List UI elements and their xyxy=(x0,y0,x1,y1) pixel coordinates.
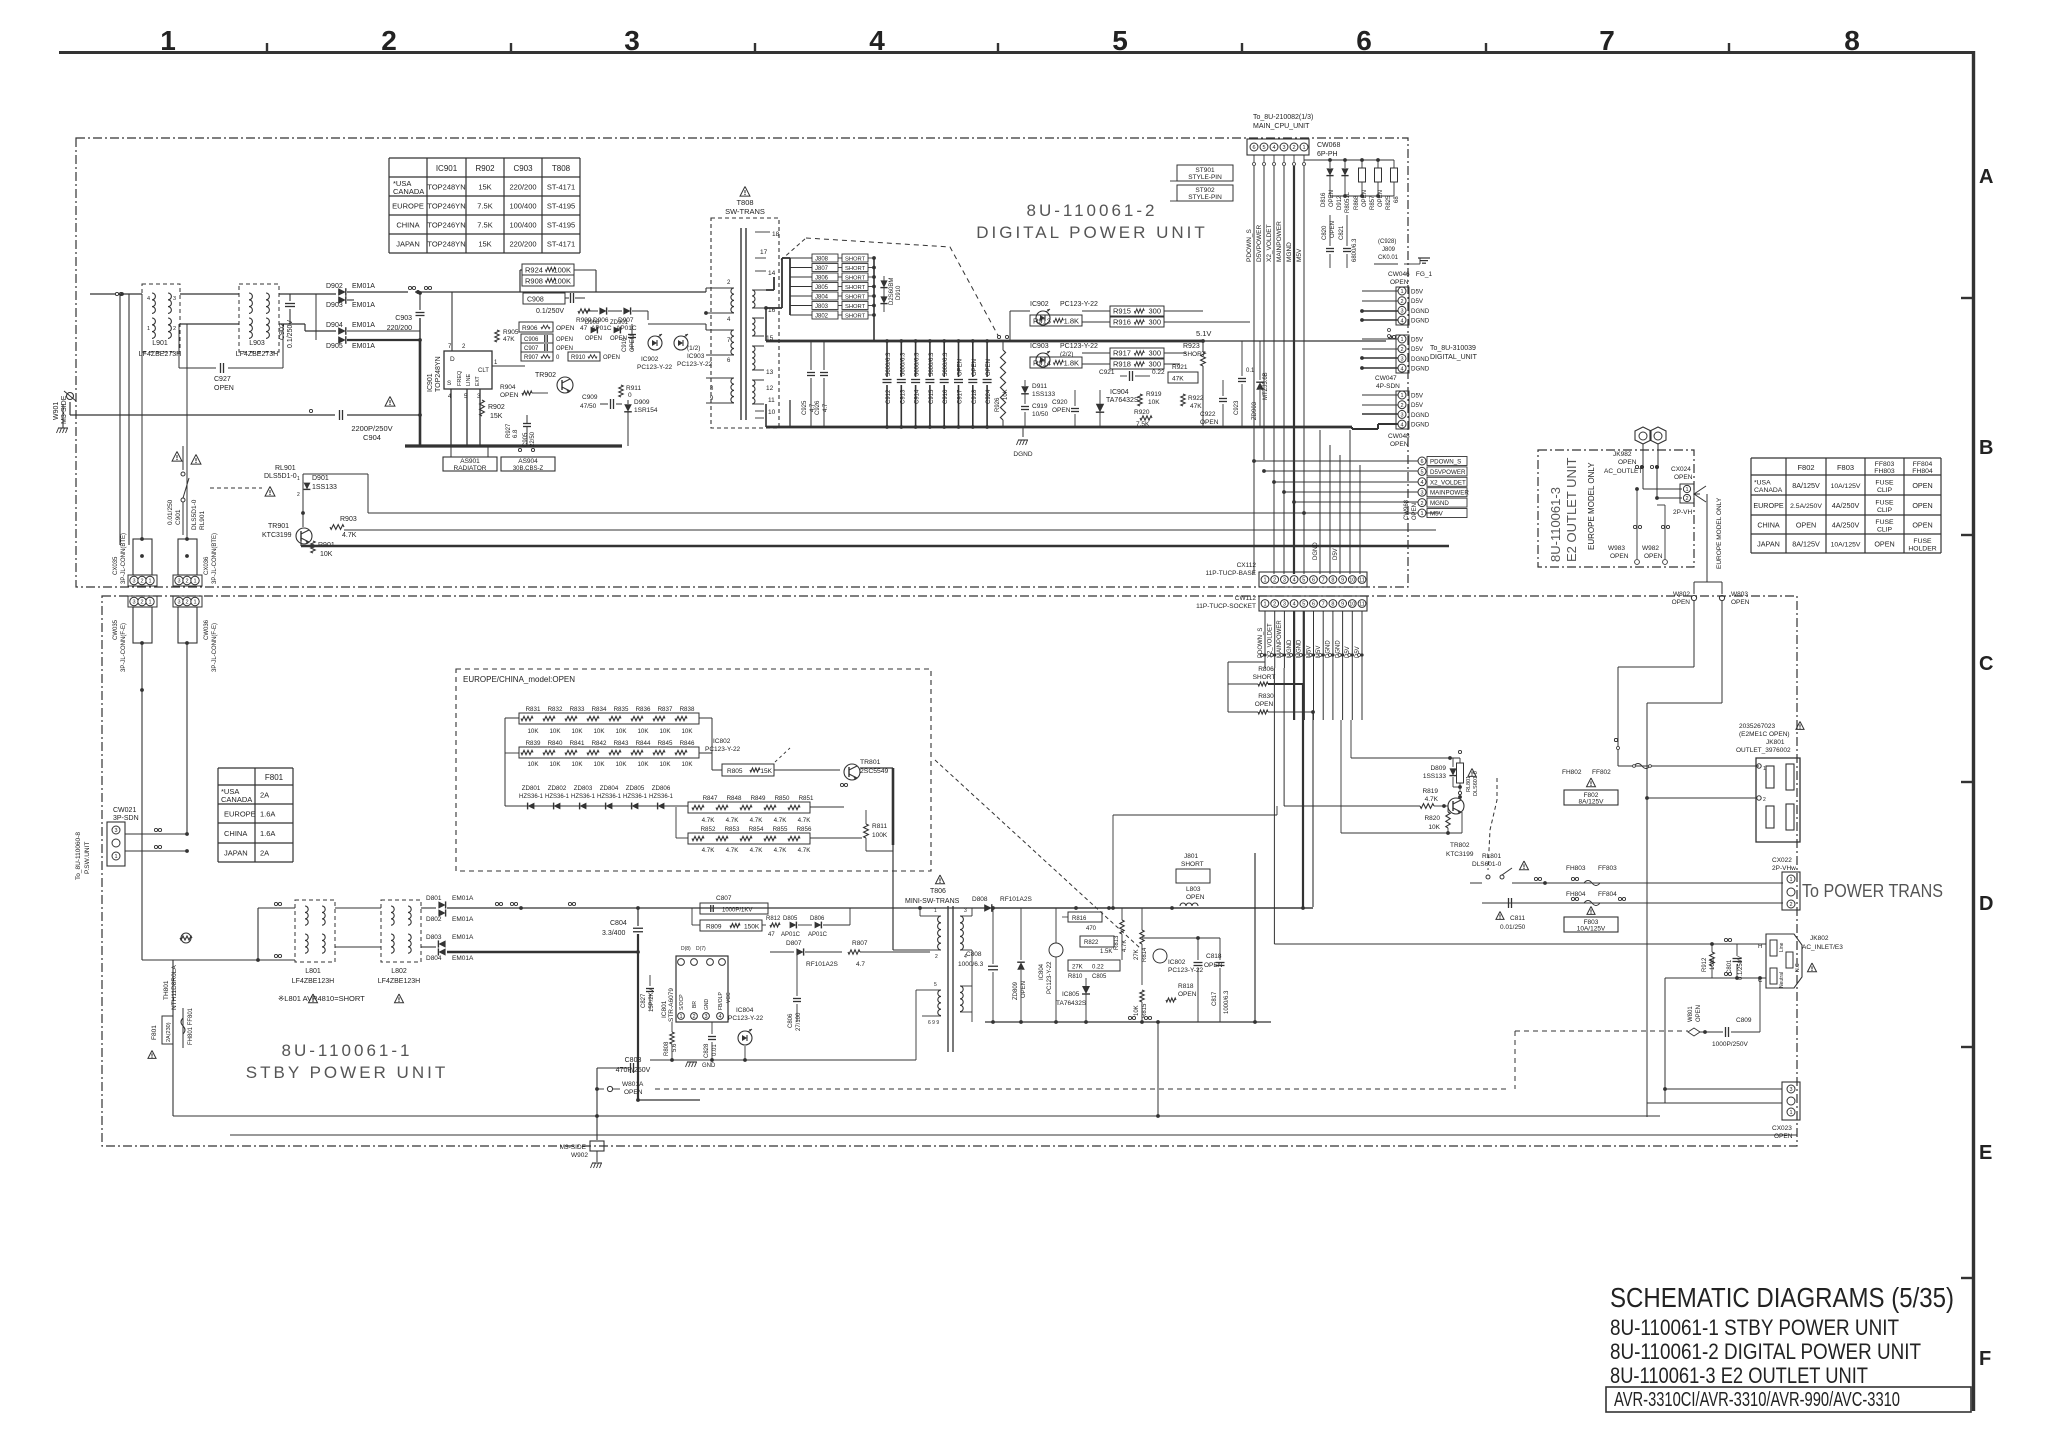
diode D907 AP01C xyxy=(623,307,630,314)
svg-text:DGND: DGND xyxy=(1313,542,1319,560)
svg-text:R907: R907 xyxy=(524,355,539,361)
svg-text:SHORT: SHORT xyxy=(845,295,866,301)
svg-text:OPEN: OPEN xyxy=(1618,459,1637,466)
svg-text:CANADA: CANADA xyxy=(221,795,252,804)
style pin ST901 xyxy=(1177,165,1233,181)
svg-text:JK982: JK982 xyxy=(1613,451,1632,458)
svg-text:BR: BR xyxy=(692,1001,698,1008)
svg-text:RL901: RL901 xyxy=(199,510,206,530)
svg-text:TA76432S: TA76432S xyxy=(1056,1000,1087,1007)
svg-text:VCC: VCC xyxy=(726,992,732,1003)
wire L903 to diodes xyxy=(279,293,336,295)
zener ZD903 MTZJ5.6B xyxy=(1256,382,1264,390)
T808 bias winding pins 8-9 xyxy=(731,378,734,403)
svg-text:15K: 15K xyxy=(478,240,491,249)
svg-text:C901: C901 xyxy=(175,509,182,525)
svg-text:FF802: FF802 xyxy=(1592,769,1611,776)
wire top AC line xyxy=(90,293,142,295)
svg-text:Neutral: Neutral xyxy=(1779,972,1785,988)
svg-text:1: 1 xyxy=(193,579,196,585)
resistor R921 47K (boxed) xyxy=(1168,372,1198,383)
svg-text:R916: R916 xyxy=(1113,318,1131,327)
T808 secondary winding pin15 xyxy=(752,318,755,336)
svg-text:D912: D912 xyxy=(1337,195,1343,210)
svg-text:R813: R813 xyxy=(1114,935,1120,950)
svg-text:0.01/250: 0.01/250 xyxy=(1500,924,1526,931)
resistor R805 15K (boxed) xyxy=(722,764,774,776)
svg-text:LF4ZBE123H: LF4ZBE123H xyxy=(292,978,334,985)
resistor R914 1.8K (boxed) xyxy=(1030,357,1082,368)
svg-text:10K: 10K xyxy=(527,761,539,768)
resistor R809 150K (boxed) xyxy=(700,920,762,931)
svg-text:HZS36-1: HZS36-1 xyxy=(545,794,570,800)
svg-text:PDOWN_S: PDOWN_S xyxy=(1430,459,1461,466)
svg-text:C926: C926 xyxy=(815,400,821,415)
svg-text:10K: 10K xyxy=(593,728,605,735)
svg-text:CW047: CW047 xyxy=(1375,375,1397,382)
resistor R919 10K xyxy=(1138,394,1142,406)
svg-text:7.5K: 7.5K xyxy=(477,221,492,230)
svg-text:J806: J806 xyxy=(815,276,829,282)
junction dots mid xyxy=(1074,906,1078,910)
wire CX024 down to W802/W803 xyxy=(1706,494,1708,582)
svg-text:IC902: IC902 xyxy=(641,356,659,363)
svg-text:8A/125V: 8A/125V xyxy=(1792,539,1820,548)
optocoupler IC802 output side xyxy=(1153,949,1167,963)
svg-text:PC123-Y-22: PC123-Y-22 xyxy=(728,1015,764,1022)
svg-text:D806: D806 xyxy=(810,916,825,922)
svg-text:FF803: FF803 xyxy=(1875,461,1895,468)
capacitor C910 OPEN (rotated) xyxy=(628,334,636,336)
connector CW068 6P-PH xyxy=(1247,139,1309,155)
T808 secondary winding pin16 xyxy=(752,290,755,308)
capacitor C925 4.7 xyxy=(810,341,812,370)
svg-text:C914: C914 xyxy=(915,389,921,404)
wire inlet H left xyxy=(1680,943,1766,945)
svg-text:R855: R855 xyxy=(773,826,788,833)
resistor R811 100K xyxy=(864,824,869,838)
svg-text:ZD801: ZD801 xyxy=(522,785,541,792)
svg-text:PC123-Y-22: PC123-Y-22 xyxy=(705,746,741,753)
svg-text:ZD901: ZD901 xyxy=(610,320,629,326)
svg-text:2: 2 xyxy=(1292,145,1295,151)
svg-text:AP01C: AP01C xyxy=(616,325,637,332)
svg-text:FH803: FH803 xyxy=(1566,865,1586,872)
svg-text:AVR-3310CI/AVR-3310/AVR-990/AV: AVR-3310CI/AVR-3310/AVR-990/AVC-3310 xyxy=(1614,1388,1900,1411)
components R912 10M / C801 0.1/250V xyxy=(1710,952,1715,966)
wire CW021 pin3 right xyxy=(125,833,187,835)
svg-text:E: E xyxy=(1979,1142,1992,1164)
svg-text:0: 0 xyxy=(628,392,632,399)
svg-text:2: 2 xyxy=(1763,797,1766,803)
svg-text:SCHEMATIC DIAGRAMS (5/35): SCHEMATIC DIAGRAMS (5/35) xyxy=(1610,1282,1954,1313)
svg-text:C916: C916 xyxy=(943,389,949,404)
resistor R920 7.5K xyxy=(1140,416,1152,420)
grid row tick xyxy=(1961,1277,1973,1279)
svg-text:CLT: CLT xyxy=(478,368,489,374)
capacitor C922 OPEN xyxy=(1219,398,1227,400)
svg-text:R838: R838 xyxy=(680,706,695,713)
capacitor C907 OPEN (boxed) xyxy=(521,343,553,352)
junction at rectifier output xyxy=(416,290,420,294)
svg-text:3: 3 xyxy=(704,1014,707,1020)
wire jumper bus verticals xyxy=(789,258,791,315)
svg-text:2: 2 xyxy=(1273,602,1276,608)
harness vertical MAINPOWER xyxy=(1283,166,1285,574)
svg-text:PC123-Y-22: PC123-Y-22 xyxy=(637,364,673,371)
svg-text:TOP248YN: TOP248YN xyxy=(427,183,465,192)
grid column tick xyxy=(1485,43,1487,53)
svg-text:R924: R924 xyxy=(525,266,543,275)
resistor R918 300 (boxed) xyxy=(1110,359,1164,369)
diode D909 1SR154 xyxy=(624,404,632,412)
svg-text:2: 2 xyxy=(185,600,188,606)
svg-text:OPEN: OPEN xyxy=(1412,503,1418,520)
thick wire D905 to C903 riser xyxy=(347,339,420,341)
wire MGND thick drop xyxy=(1293,662,1295,720)
svg-text:AS904: AS904 xyxy=(518,458,538,465)
diode D809 1SS133 xyxy=(1452,758,1454,767)
svg-text:3P-SDN: 3P-SDN xyxy=(113,815,139,822)
wires CW047 taps xyxy=(1388,329,1391,332)
svg-text:OPEN: OPEN xyxy=(986,359,992,376)
svg-text:R911: R911 xyxy=(626,385,641,392)
svg-text:OPEN: OPEN xyxy=(1390,279,1409,286)
svg-text:PC123-Y-22: PC123-Y-22 xyxy=(1047,961,1053,994)
svg-text:KTC3199: KTC3199 xyxy=(1446,851,1474,858)
transformer T808 SW-TRANS (dashed outline) xyxy=(711,218,779,428)
svg-text:C808: C808 xyxy=(966,951,982,958)
svg-text:CX036: CX036 xyxy=(204,556,210,575)
svg-text:LF4ZBE123H: LF4ZBE123H xyxy=(378,978,420,985)
svg-text:FH803: FH803 xyxy=(1874,468,1895,475)
svg-text:4: 4 xyxy=(1400,366,1403,372)
svg-text:RL901: RL901 xyxy=(275,465,296,472)
svg-text:300: 300 xyxy=(1148,360,1161,369)
svg-text:5: 5 xyxy=(934,982,937,988)
wire X2 drop to AC inlet rail xyxy=(1273,668,1275,944)
svg-text:1000/6.3: 1000/6.3 xyxy=(958,961,984,968)
svg-text:1: 1 xyxy=(1263,578,1266,584)
svg-text:4.7K: 4.7K xyxy=(726,817,740,824)
svg-text:OPEN: OPEN xyxy=(610,336,627,342)
wire feed to D809 (y758) xyxy=(1350,720,1352,758)
svg-text:4.7: 4.7 xyxy=(856,961,865,968)
capacitor C828 0.01 xyxy=(708,1036,716,1038)
svg-text:2: 2 xyxy=(1400,347,1403,353)
svg-text:LF4ZBE273H: LF4ZBE273H xyxy=(236,351,278,358)
svg-text:3P-JL-CONN(F-E): 3P-JL-CONN(F-E) xyxy=(212,623,218,672)
diode D806 AP01C xyxy=(815,922,822,929)
wire L901 to L903 xyxy=(180,293,239,295)
svg-text:R836: R836 xyxy=(636,706,651,713)
svg-text:HOLDER: HOLDER xyxy=(1908,546,1936,553)
svg-text:CLIP: CLIP xyxy=(1877,507,1893,514)
svg-text:10M: 10M xyxy=(1710,958,1716,970)
capacitor C817 1000/6.3 (rotated) xyxy=(1216,962,1225,964)
svg-text:C913: C913 xyxy=(900,389,906,404)
svg-text:1: 1 xyxy=(1400,337,1403,343)
svg-text:MINI-SW-TRANS: MINI-SW-TRANS xyxy=(905,898,960,905)
svg-text:J805: J805 xyxy=(815,285,829,291)
T808 core xyxy=(740,228,742,420)
connector W801 OPEN + capacitor C809 1000P/250V xyxy=(1688,1028,1700,1036)
wire TR901 long rails to right xyxy=(303,473,368,475)
svg-text:6.8: 6.8 xyxy=(513,429,519,438)
svg-text:0.22: 0.22 xyxy=(1092,965,1104,971)
svg-text:CW048: CW048 xyxy=(1388,433,1410,440)
grid column tick xyxy=(510,43,512,53)
svg-text:R844: R844 xyxy=(636,740,651,747)
svg-text:4A/250V: 4A/250V xyxy=(1832,501,1860,510)
svg-text:3: 3 xyxy=(132,600,135,606)
svg-text:IC804: IC804 xyxy=(736,1007,754,1014)
svg-text:27K: 27K xyxy=(1134,949,1140,960)
svg-text:3: 3 xyxy=(173,296,176,302)
svg-text:3: 3 xyxy=(1283,578,1286,584)
svg-text:RL801: RL801 xyxy=(1482,853,1502,860)
svg-text:10K: 10K xyxy=(681,761,693,768)
svg-text:R850: R850 xyxy=(775,795,790,802)
svg-text:7.5K: 7.5K xyxy=(1136,421,1150,428)
svg-text:F: F xyxy=(1979,1348,1991,1370)
svg-text:10K: 10K xyxy=(593,761,605,768)
svg-text:1: 1 xyxy=(193,600,196,606)
svg-text:CW035: CW035 xyxy=(113,619,119,640)
svg-text:1: 1 xyxy=(1420,511,1423,517)
svg-text:D802: D802 xyxy=(426,916,442,923)
resistor R913 1.8K (boxed) xyxy=(1030,315,1082,326)
svg-text:220/200: 220/200 xyxy=(509,240,536,249)
grid column tick xyxy=(266,43,268,53)
svg-text:STR-A6079: STR-A6079 xyxy=(668,988,675,1022)
capacitor C806 27/100 (rotated) xyxy=(793,998,801,1000)
svg-text:IC902: IC902 xyxy=(1030,301,1049,308)
svg-text:ZD903: ZD903 xyxy=(1252,401,1258,420)
rail 5.1V xyxy=(1203,340,1386,342)
svg-text:FUSE: FUSE xyxy=(1913,538,1932,545)
svg-text:S: S xyxy=(447,380,452,387)
svg-text:CX035: CX035 xyxy=(113,556,119,575)
svg-text:OPEN: OPEN xyxy=(958,359,964,376)
wire AC line to L801 xyxy=(173,959,295,961)
svg-text:R847: R847 xyxy=(703,795,718,802)
svg-text:4P-SDN: 4P-SDN xyxy=(1376,383,1400,390)
svg-text:R805: R805 xyxy=(727,768,743,775)
T808 secondary winding pin13 xyxy=(752,346,755,370)
svg-text:J809: J809 xyxy=(1382,247,1396,253)
svg-text:C906: C906 xyxy=(524,337,539,343)
svg-text:F801: F801 xyxy=(151,1025,158,1040)
svg-text:3: 3 xyxy=(1282,145,1285,151)
grid column tick xyxy=(754,43,756,53)
junction pair before L801 xyxy=(274,902,277,905)
svg-text:OPEN: OPEN xyxy=(1672,599,1691,606)
svg-text:CW068: CW068 xyxy=(1317,142,1340,149)
junction dot row under CW112 xyxy=(1261,654,1264,657)
wire top tie D816-R825 xyxy=(1304,159,1394,161)
optocoupler IC903 input side xyxy=(1036,353,1050,367)
svg-text:15P/2KV: 15P/2KV xyxy=(649,988,655,1012)
optocoupler IC804 input side (rotated) xyxy=(1049,943,1063,957)
T806 core xyxy=(947,906,949,1052)
svg-text:10K: 10K xyxy=(1148,399,1160,406)
svg-text:TH801: TH801 xyxy=(163,980,170,1000)
IC801 STR-A6079 xyxy=(676,956,728,1022)
junction pairs on W802 leg xyxy=(1614,738,1617,741)
svg-text:8: 8 xyxy=(1331,578,1334,584)
svg-text:10K: 10K xyxy=(615,728,627,735)
border top ruler line xyxy=(59,51,1973,54)
junction pair on rectified line xyxy=(408,286,411,289)
svg-text:3: 3 xyxy=(114,828,117,834)
dashed outline EUROPE/CHINA model:OPEN option block xyxy=(456,669,931,871)
svg-text:1: 1 xyxy=(1400,393,1403,399)
svg-text:8: 8 xyxy=(1844,25,1860,56)
svg-text:1: 1 xyxy=(1302,145,1305,151)
vertical DGND/D5V harness drops xyxy=(1319,430,1321,574)
vertical feed from R806/R830 down to secondary xyxy=(1254,853,1256,1022)
connector CW112 11P-TUCP-SOCKET xyxy=(1259,596,1367,611)
wire W803 down to CX023 leg xyxy=(1721,601,1723,703)
svg-text:C924: C924 xyxy=(986,389,992,404)
svg-text:4.7K: 4.7K xyxy=(1122,940,1128,952)
resistor R815 10K (rotated) xyxy=(1140,990,1144,1002)
svg-text:10A/125V: 10A/125V xyxy=(1831,541,1861,548)
svg-text:5600/6.3: 5600/6.3 xyxy=(900,352,906,376)
capacitor C909 47/50 xyxy=(610,399,612,409)
svg-text:8U-110061-3: 8U-110061-3 xyxy=(1548,487,1563,562)
svg-text:AC_INLET/E3: AC_INLET/E3 xyxy=(1802,944,1843,951)
svg-text:CLIP: CLIP xyxy=(1877,527,1893,534)
svg-text:D902: D902 xyxy=(326,283,343,290)
svg-text:R834: R834 xyxy=(592,706,607,713)
svg-text:2A: 2A xyxy=(260,791,269,800)
wire relay contact to fuse FH803 and CX022 xyxy=(1470,882,1482,884)
connector CW035 3P-JL-CONN(F-E) xyxy=(128,596,157,607)
svg-text:C903: C903 xyxy=(513,164,533,173)
optocoupler IC902 PC123-Y-22 (1/2) xyxy=(648,336,662,350)
harness vertical D5VPOWER xyxy=(1263,166,1265,460)
svg-text:11P-TUCP-BASE: 11P-TUCP-BASE xyxy=(1206,570,1257,577)
svg-text:47/50: 47/50 xyxy=(580,403,597,410)
connector CW036 3P-JL-CONN(F-E) xyxy=(173,596,202,607)
optocoupler IC804 PC123-Y-22 output xyxy=(738,1031,752,1045)
svg-text:C811: C811 xyxy=(1510,915,1525,922)
line filter L903 LF4ZBE273H xyxy=(239,284,279,352)
svg-text:4: 4 xyxy=(1420,480,1423,486)
diode D904 EM01A xyxy=(338,327,346,335)
svg-text:4: 4 xyxy=(1400,422,1403,428)
junction pair below primary bus xyxy=(518,448,521,451)
svg-text:6: 6 xyxy=(1312,602,1315,608)
svg-text:R815: R815 xyxy=(1142,1003,1148,1018)
svg-text:R854: R854 xyxy=(749,826,764,833)
svg-text:5600/6.3: 5600/6.3 xyxy=(943,352,949,376)
svg-text:10K: 10K xyxy=(571,761,583,768)
fuse F803 10A/125V (boxed) xyxy=(1587,907,1595,915)
svg-text:C820: C820 xyxy=(1322,225,1328,240)
resistor R902 15K xyxy=(480,400,485,416)
svg-text:D909: D909 xyxy=(634,399,650,406)
svg-text:4: 4 xyxy=(869,25,885,56)
svg-text:IC801: IC801 xyxy=(661,1000,668,1018)
svg-text:OPEN: OPEN xyxy=(1362,190,1368,207)
svg-text:3: 3 xyxy=(1400,413,1403,419)
svg-text:IC805: IC805 xyxy=(1062,991,1080,998)
svg-text:15K: 15K xyxy=(760,768,772,775)
svg-text:CX024: CX024 xyxy=(1671,466,1691,473)
capacitor C920 OPEN xyxy=(1071,408,1079,410)
svg-text:MAINPOWER: MAINPOWER xyxy=(1277,620,1283,658)
svg-text:EM01A: EM01A xyxy=(352,283,375,290)
wire CW021 pin1 right xyxy=(125,850,187,852)
resistor R808 5.6 xyxy=(670,1032,674,1044)
svg-text:2A: 2A xyxy=(260,849,269,858)
svg-text:D5V: D5V xyxy=(1333,548,1339,560)
svg-text:L803: L803 xyxy=(1186,886,1201,893)
svg-text:8U-110061-1: 8U-110061-1 xyxy=(282,1041,413,1060)
svg-text:DLS5D1-0: DLS5D1-0 xyxy=(191,499,198,530)
svg-text:EXT: EXT xyxy=(475,376,481,386)
connector CW021 3P-SDN xyxy=(107,822,125,866)
svg-text:300: 300 xyxy=(1148,349,1161,358)
svg-text:220/200: 220/200 xyxy=(509,183,536,192)
svg-text:D911: D911 xyxy=(1032,383,1047,390)
svg-text:4.7K: 4.7K xyxy=(702,847,716,854)
svg-text:15K: 15K xyxy=(478,183,491,192)
svg-text:SHORT: SHORT xyxy=(1181,861,1204,868)
svg-text:OPEN: OPEN xyxy=(972,359,978,376)
svg-text:C920: C920 xyxy=(1052,399,1068,406)
svg-text:10K: 10K xyxy=(1134,1005,1140,1016)
svg-text:1: 1 xyxy=(160,25,176,56)
svg-text:GND: GND xyxy=(702,1063,716,1069)
svg-text:T806: T806 xyxy=(930,888,946,895)
svg-text:6: 6 xyxy=(1356,25,1372,56)
resistor R907 0 (boxed) xyxy=(521,352,553,361)
svg-text:D5VPOWER: D5VPOWER xyxy=(1430,469,1466,476)
svg-text:L802: L802 xyxy=(391,968,407,975)
wire secondary bus to bottom rail xyxy=(1157,1022,1159,1116)
svg-text:1SS133: 1SS133 xyxy=(1032,391,1056,398)
fuse F801 2A (boxed label) xyxy=(162,1016,173,1044)
svg-text:100/400: 100/400 xyxy=(509,221,536,230)
svg-text:17: 17 xyxy=(760,249,768,256)
svg-text:OPEN: OPEN xyxy=(1696,1005,1702,1022)
svg-text:5600/6.3: 5600/6.3 xyxy=(886,352,892,376)
ground FG_1 xyxy=(1404,263,1420,265)
svg-text:10K: 10K xyxy=(659,761,671,768)
svg-text:10K: 10K xyxy=(549,728,561,735)
wire R830 right vertical xyxy=(1312,712,1314,907)
svg-text:30B.CBS-Z: 30B.CBS-Z xyxy=(513,466,544,472)
svg-text:10K: 10K xyxy=(571,728,583,735)
resistor R825 68 xyxy=(1391,168,1398,182)
svg-text:R825: R825 xyxy=(1386,195,1392,210)
arrow at CX024 xyxy=(1694,486,1706,494)
svg-text:47K: 47K xyxy=(1172,376,1184,383)
T808 secondary winding pin12-10 xyxy=(752,380,755,404)
svg-text:R843: R843 xyxy=(614,740,629,747)
svg-text:FF803: FF803 xyxy=(1598,865,1617,872)
wire inlet H rail to left xyxy=(1274,943,1766,945)
capacitor C926 4.7 xyxy=(823,341,825,370)
svg-text:FH804: FH804 xyxy=(1566,891,1586,898)
svg-text:10K: 10K xyxy=(549,761,561,768)
svg-text:F801: F801 xyxy=(265,773,284,782)
long rail MGND y546 (thick) xyxy=(301,545,1449,548)
